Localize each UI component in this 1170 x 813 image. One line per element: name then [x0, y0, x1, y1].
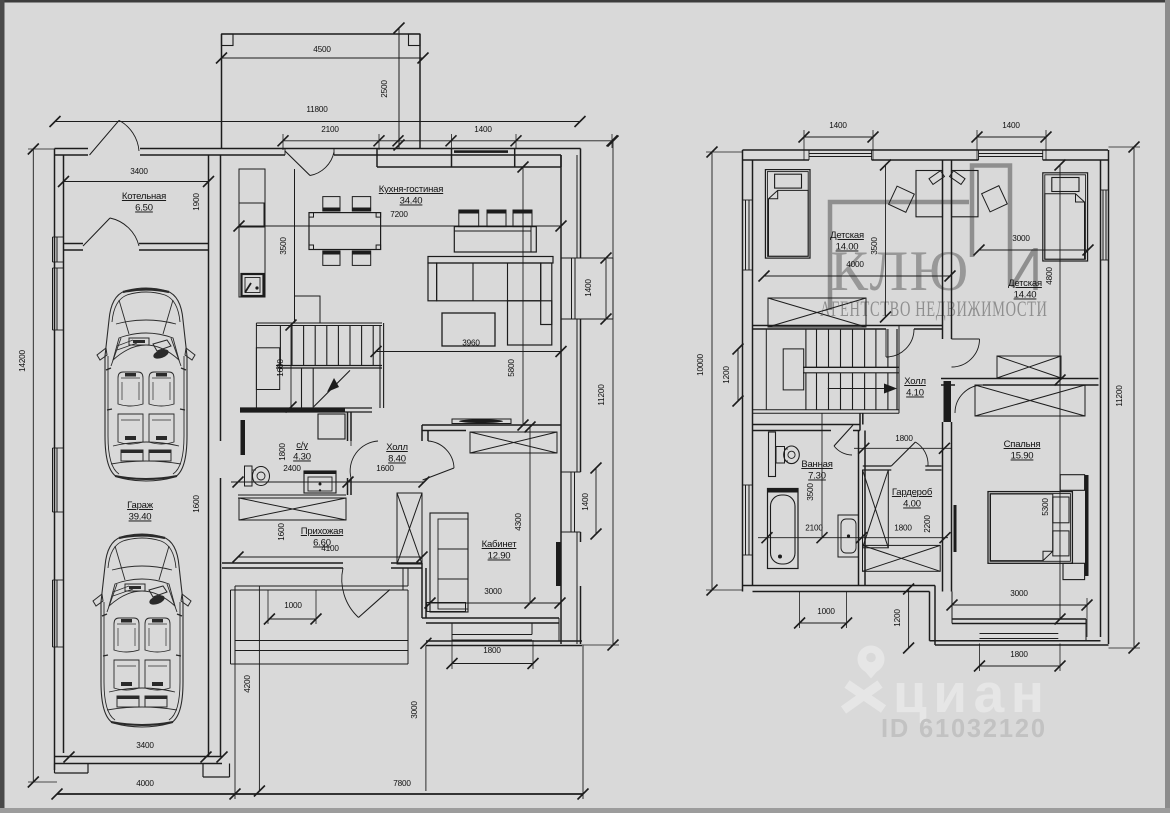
border right	[1165, 0, 1170, 813]
svg-text:11200: 11200	[1115, 385, 1124, 407]
wall spalnya bottom	[952, 592, 1086, 641]
dim extension lines left	[28, 134, 619, 799]
dim 1600 stairs	[276, 320, 297, 413]
dim 3400 kotelnaya	[58, 167, 214, 187]
svg-text:Котельная: Котельная	[122, 191, 166, 202]
svg-text:ID 61032120: ID 61032120	[881, 715, 1047, 743]
svg-text:3400: 3400	[130, 167, 148, 176]
wall garage right	[209, 155, 221, 757]
svg-text:12.90: 12.90	[488, 551, 511, 562]
bay window	[561, 258, 613, 319]
dim 1000 terrace	[264, 601, 322, 625]
label detskaya2	[1008, 278, 1042, 301]
wall stairs top	[753, 326, 943, 330]
door kotelnaya	[83, 218, 139, 246]
window left wall 2	[53, 268, 64, 330]
svg-text:1800: 1800	[278, 443, 287, 461]
door su	[350, 441, 378, 478]
border top	[0, 0, 1170, 3]
dim 4300	[514, 422, 536, 609]
stairs first floor	[256, 323, 383, 408]
wall right-plan bottom right	[930, 641, 1109, 645]
svg-text:1800: 1800	[895, 434, 913, 443]
bed spalnya	[988, 475, 1085, 580]
svg-text:14.00: 14.00	[836, 242, 859, 253]
toilet vannaya	[776, 446, 799, 464]
svg-text:3500: 3500	[870, 237, 879, 255]
label kotelnaya	[122, 191, 166, 214]
wardrobe spalnya	[975, 385, 1085, 416]
door entrance top	[285, 151, 334, 176]
wall left outer	[55, 149, 64, 771]
car 1	[97, 288, 195, 481]
porch	[222, 34, 421, 149]
window left wall 4	[53, 580, 64, 647]
wall garage bottom	[55, 757, 230, 778]
mirror spalnya	[954, 505, 957, 552]
svg-text:3000: 3000	[484, 587, 502, 596]
dim 1200 step	[893, 584, 914, 654]
dim 14200	[18, 144, 39, 788]
label vannaya	[801, 459, 832, 482]
door vannaya	[834, 425, 853, 455]
svg-text:1600: 1600	[276, 359, 285, 377]
svg-text:3000: 3000	[410, 701, 419, 719]
label su	[293, 440, 311, 463]
svg-text:4000: 4000	[846, 260, 864, 269]
dim 3000 vert	[410, 638, 431, 791]
dim 1400 r2	[972, 121, 1052, 143]
svg-text:3500: 3500	[279, 237, 288, 255]
svg-text:14200: 14200	[18, 349, 27, 371]
svg-text:34.40: 34.40	[400, 196, 423, 207]
dim 11200 right plan	[1115, 142, 1140, 654]
dim 3500 vannaya	[806, 413, 828, 543]
wall kotelnaya bottom	[64, 244, 209, 251]
svg-text:Ванная: Ванная	[801, 459, 832, 470]
svg-text:1800: 1800	[894, 524, 912, 533]
svg-text:Холл: Холл	[904, 376, 926, 387]
sofa living room	[428, 257, 553, 346]
svg-text:4200: 4200	[243, 675, 252, 693]
dim 1800 balkon	[974, 650, 1066, 672]
svg-text:Спальня: Спальня	[1004, 439, 1041, 450]
dim 4200	[243, 586, 265, 797]
dim 2100 1800 bath	[758, 524, 951, 544]
label kabinet	[482, 539, 518, 562]
dim 4800 5300	[1041, 160, 1066, 625]
wall prihozhaya bottom	[222, 563, 422, 568]
wall right-plan left	[743, 150, 753, 592]
balcony spalnya	[980, 634, 1059, 639]
svg-text:Гараж: Гараж	[127, 500, 154, 511]
wardrobe hall tall	[397, 493, 422, 564]
wall under stairs	[240, 408, 372, 412]
wall su bottom	[238, 495, 346, 498]
door garderob	[891, 442, 928, 466]
svg-text:7800: 7800	[393, 779, 411, 788]
svg-text:3960: 3960	[462, 339, 480, 348]
duct bar	[241, 420, 246, 455]
wall house bottom right	[426, 149, 582, 646]
svg-text:1400: 1400	[829, 121, 847, 130]
terrace kabinet	[452, 623, 532, 641]
svg-text:1000: 1000	[817, 607, 835, 616]
svg-text:2100: 2100	[321, 125, 339, 134]
svg-text:3000: 3000	[1010, 589, 1028, 598]
svg-text:1600: 1600	[192, 495, 201, 513]
dim 1000 r	[794, 607, 852, 629]
svg-text:1900: 1900	[192, 193, 201, 211]
stairs second floor	[753, 326, 900, 414]
door entrance double	[342, 568, 390, 618]
wardrobe garderob vert	[863, 470, 889, 548]
svg-text:Гардероб: Гардероб	[892, 487, 933, 498]
dim extension lines right	[706, 130, 1140, 671]
svg-text:6.60: 6.60	[313, 538, 331, 549]
watermark KLUCHI logo	[820, 166, 1048, 322]
wall spalnya top	[941, 379, 1099, 386]
label holl2	[904, 376, 926, 399]
tv	[452, 419, 511, 424]
bathtub	[768, 489, 799, 569]
svg-text:39.40: 39.40	[129, 512, 152, 523]
bed detskaya2	[1043, 173, 1088, 261]
svg-text:8.40: 8.40	[388, 454, 406, 465]
svg-text:2200: 2200	[923, 515, 932, 533]
window glass top	[454, 150, 508, 153]
dim 3500 kitchen	[279, 237, 288, 255]
car 2	[93, 534, 191, 727]
svg-text:15.90: 15.90	[1011, 451, 1034, 462]
dim 4500 porch	[216, 45, 429, 64]
terrace entrance	[231, 568, 409, 664]
svg-text:1400: 1400	[584, 279, 593, 297]
wall spine	[943, 160, 952, 592]
window dark bar right	[556, 542, 561, 586]
wall kabinet top	[422, 425, 561, 441]
windows right-plan left	[743, 200, 753, 555]
svg-text:4800: 4800	[1045, 267, 1054, 285]
svg-text:2100: 2100	[805, 524, 823, 533]
desks detskie	[889, 171, 1008, 217]
wardrobe kabinet	[470, 432, 557, 453]
svg-text:АГЕНТСТВО НЕДВИЖИМОСТИ: АГЕНТСТВО НЕДВИЖИМОСТИ	[820, 297, 1048, 322]
label kuhnya	[379, 184, 443, 207]
dim 3000 detskaya2	[974, 234, 1094, 256]
label garazh	[127, 500, 154, 523]
svg-text:Прихожая: Прихожая	[301, 526, 343, 537]
wall top	[55, 149, 581, 156]
label garderob	[892, 487, 933, 510]
dim 2200 garderob	[923, 515, 932, 533]
dim 1400 r1	[799, 121, 879, 143]
svg-text:10000: 10000	[696, 353, 705, 375]
windows right-plan top	[809, 150, 1043, 160]
svg-text:7200: 7200	[390, 210, 408, 219]
dim 4000 detskaya1	[759, 260, 956, 282]
window left wall 3	[53, 448, 64, 512]
door spalnya	[955, 385, 983, 413]
border left	[0, 0, 5, 813]
svg-text:14.40: 14.40	[1014, 290, 1037, 301]
dining table	[309, 213, 381, 250]
wall top window face	[377, 149, 561, 168]
wardrobe detskaya1	[768, 298, 866, 327]
svg-text:Кухня-гостиная: Кухня-гостиная	[379, 184, 443, 195]
watermark cian	[844, 645, 1051, 743]
kitchen island	[454, 210, 536, 252]
dim 10000	[696, 147, 718, 596]
door detskaya1	[886, 329, 914, 357]
wardrobe detskaya2	[997, 356, 1061, 378]
svg-text:1000: 1000	[284, 601, 302, 610]
sofa kabinet	[430, 513, 468, 612]
svg-text:2400: 2400	[283, 464, 301, 473]
svg-text:4300: 4300	[514, 513, 523, 531]
label detskaya1	[830, 230, 864, 253]
dim 4000 7800 bottom	[52, 779, 589, 800]
duct vannaya	[769, 432, 776, 477]
dim 3000 spalnya	[947, 589, 1093, 611]
svg-text:1800: 1800	[1010, 650, 1028, 659]
svg-text:1400: 1400	[1002, 121, 1020, 130]
dim 5800	[507, 162, 529, 431]
dim 3500 r	[870, 160, 891, 323]
washer	[304, 471, 336, 493]
kitchen sink	[242, 274, 264, 296]
svg-text:1600: 1600	[277, 523, 286, 541]
dim 2100 1400 top	[278, 125, 618, 146]
wall right-plan bottom left	[743, 586, 936, 592]
svg-text:2500: 2500	[380, 80, 389, 98]
svg-text:с/у: с/у	[296, 440, 308, 451]
wall kabinet bottom	[422, 563, 559, 623]
svg-text:4000: 4000	[136, 779, 154, 788]
wall right-plan step	[930, 586, 936, 646]
svg-text:1200: 1200	[722, 366, 731, 384]
svg-text:1400: 1400	[474, 125, 492, 134]
label holl	[386, 442, 408, 465]
door detskaya2	[952, 339, 980, 367]
window left wall 1	[53, 237, 64, 262]
svg-text:4.10: 4.10	[906, 388, 924, 399]
label spalnya	[1004, 439, 1041, 462]
label prihozhaya	[301, 526, 343, 549]
radiator kabinet	[427, 603, 466, 612]
dim 11800	[50, 105, 586, 127]
svg-text:4.00: 4.00	[903, 499, 921, 510]
dim 4100	[233, 544, 428, 563]
svg-text:5300: 5300	[1041, 498, 1050, 516]
dim 1800 su	[278, 443, 287, 461]
dim 3000 kabinet	[425, 587, 566, 609]
windows right-plan right	[1085, 190, 1109, 576]
dim 7200	[234, 210, 567, 232]
kitchen counter	[239, 169, 320, 323]
svg-text:3000: 3000	[1012, 234, 1030, 243]
dim 11200 left plan	[597, 136, 619, 651]
wall right	[561, 149, 581, 645]
wall right-plan right	[1101, 150, 1109, 644]
svg-text:Кабинет: Кабинет	[482, 539, 518, 550]
svg-text:4500: 4500	[313, 45, 331, 54]
dim 2400 1600 su	[231, 464, 430, 488]
svg-text:3400: 3400	[136, 741, 154, 750]
svg-text:1800: 1800	[483, 646, 501, 655]
svg-text:5800: 5800	[507, 359, 516, 377]
toilet su	[245, 466, 270, 486]
svg-text:Холл: Холл	[386, 442, 408, 453]
dim 1800 terrace kabinet	[447, 646, 539, 669]
wall su right	[348, 412, 352, 495]
door kotelnaya exterior	[88, 120, 140, 156]
svg-text:4.30: 4.30	[293, 452, 311, 463]
washbasin	[838, 515, 859, 557]
wall bath-garderob	[859, 431, 866, 586]
svg-text:7.30: 7.30	[808, 471, 826, 482]
svg-text:1400: 1400	[581, 493, 590, 511]
svg-text:6.50: 6.50	[135, 203, 153, 214]
wall bath top	[753, 413, 863, 430]
wall right-plan top	[743, 150, 1109, 160]
window kabinet	[561, 472, 581, 532]
wardrobe prihozhaya	[239, 498, 346, 520]
border bottom	[0, 808, 1170, 813]
svg-text:1600: 1600	[376, 464, 394, 473]
svg-text:Детская: Детская	[830, 230, 864, 241]
dim 1900	[192, 193, 201, 211]
wall garderob top	[863, 466, 942, 470]
door kabinet	[423, 441, 454, 480]
dim 1600 garage	[192, 495, 201, 513]
dim 1800 holl	[854, 434, 952, 454]
bed detskaya1	[765, 170, 810, 259]
dim 1600 prihozhaya	[277, 523, 286, 541]
dim 3400 garage bottom	[64, 741, 228, 763]
svg-text:11200: 11200	[597, 384, 606, 406]
wardrobe garderob horiz	[863, 545, 941, 571]
dim 1400 kabinet window	[581, 463, 602, 540]
dining chairs	[323, 197, 371, 266]
dim 2500 porch	[380, 23, 405, 151]
dim 1200 stairs r	[722, 344, 744, 407]
svg-text:Детская: Детская	[1008, 278, 1042, 289]
svg-text:3500: 3500	[806, 483, 815, 501]
dim 1400 bay	[584, 253, 612, 325]
shaft box	[318, 414, 345, 439]
svg-text:1200: 1200	[893, 609, 902, 627]
coffee table	[442, 313, 495, 346]
dim 3960	[371, 339, 567, 358]
svg-text:11800: 11800	[306, 105, 328, 114]
